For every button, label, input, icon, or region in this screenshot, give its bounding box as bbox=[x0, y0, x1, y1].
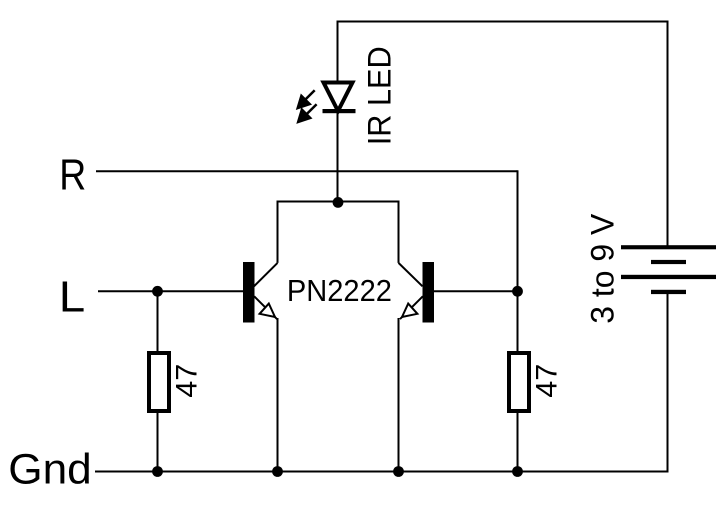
transistor Q1 (left PN2222) bbox=[243, 262, 277, 323]
Q1 emitter arrowhead bbox=[260, 304, 275, 317]
svg-text:R: R bbox=[59, 149, 86, 199]
wire: R rail corner down to right base node bbox=[517, 170, 519, 291]
resistor R2 (47) bbox=[509, 353, 529, 411]
svg-text:IR LED: IR LED bbox=[361, 46, 397, 145]
svg-text:47: 47 bbox=[170, 364, 203, 398]
wire: R2 down to ground rail bbox=[517, 413, 519, 472]
wire: R input rail bbox=[96, 170, 518, 172]
resistor R1 (47) bbox=[149, 353, 169, 411]
svg-text:PN2222: PN2222 bbox=[287, 274, 392, 308]
svg-text:L: L bbox=[59, 272, 85, 321]
wire: battery negative lead down to ground rail bbox=[667, 292, 669, 473]
wire: R1 down to ground rail bbox=[157, 413, 159, 472]
wire: Q2 base to right node bbox=[434, 290, 518, 292]
battery BT1 (3 to 9 V) bbox=[621, 245, 716, 294]
wire: Q2 collector diagonal bbox=[399, 263, 423, 286]
wire: Q1 collector diagonal bbox=[254, 263, 278, 286]
svg-text:Gnd: Gnd bbox=[8, 446, 92, 493]
wire: collector bus bbox=[278, 202, 399, 263]
battery plate short - bbox=[651, 260, 686, 264]
Q2 emitter diagonal bbox=[400, 296, 423, 319]
node: Q1 emitter / ground junction bbox=[272, 466, 283, 477]
svg-text:47: 47 bbox=[530, 364, 563, 398]
Q2 base bar bbox=[423, 262, 435, 323]
wire: node down to R2 bbox=[517, 291, 519, 352]
svg-text:3 to 9 V: 3 to 9 V bbox=[584, 213, 620, 323]
battery plate short - bbox=[651, 290, 686, 294]
Q2 emitter arrowhead bbox=[402, 304, 417, 317]
node: R1 / ground junction bbox=[152, 466, 163, 477]
node: R rail / Q2 base / R2 junction bbox=[512, 286, 523, 297]
Q1 emitter diagonal bbox=[254, 296, 277, 319]
battery plate long + bbox=[621, 245, 716, 249]
wire: battery positive lead down bbox=[667, 21, 669, 247]
Q1 base bar bbox=[243, 262, 255, 323]
wire: LED cathode down to collector node bbox=[337, 111, 339, 203]
transistor Q2 (right PN2222, mirrored) bbox=[400, 262, 434, 323]
node: R2 / ground junction bbox=[512, 466, 523, 477]
LED light emission arrows bbox=[298, 90, 317, 122]
wire: ground rail bbox=[95, 471, 669, 473]
node: Q2 emitter / ground junction bbox=[393, 466, 404, 477]
wire: top rail horizontal bbox=[337, 21, 669, 23]
node: collector junction bbox=[333, 197, 344, 208]
battery plate long + bbox=[621, 275, 716, 279]
node: L / R1 junction bbox=[152, 286, 163, 297]
IR LED D1 (triangle + cathode bar) bbox=[323, 83, 356, 114]
wire: L input to Q1 base bbox=[98, 290, 244, 292]
wire: Q1 emitter down to ground bbox=[277, 318, 279, 472]
wire: node down to R1 bbox=[157, 291, 159, 352]
wire: Q2 emitter down to ground bbox=[398, 318, 400, 472]
wire: LED anode up to top rail bbox=[337, 22, 339, 83]
